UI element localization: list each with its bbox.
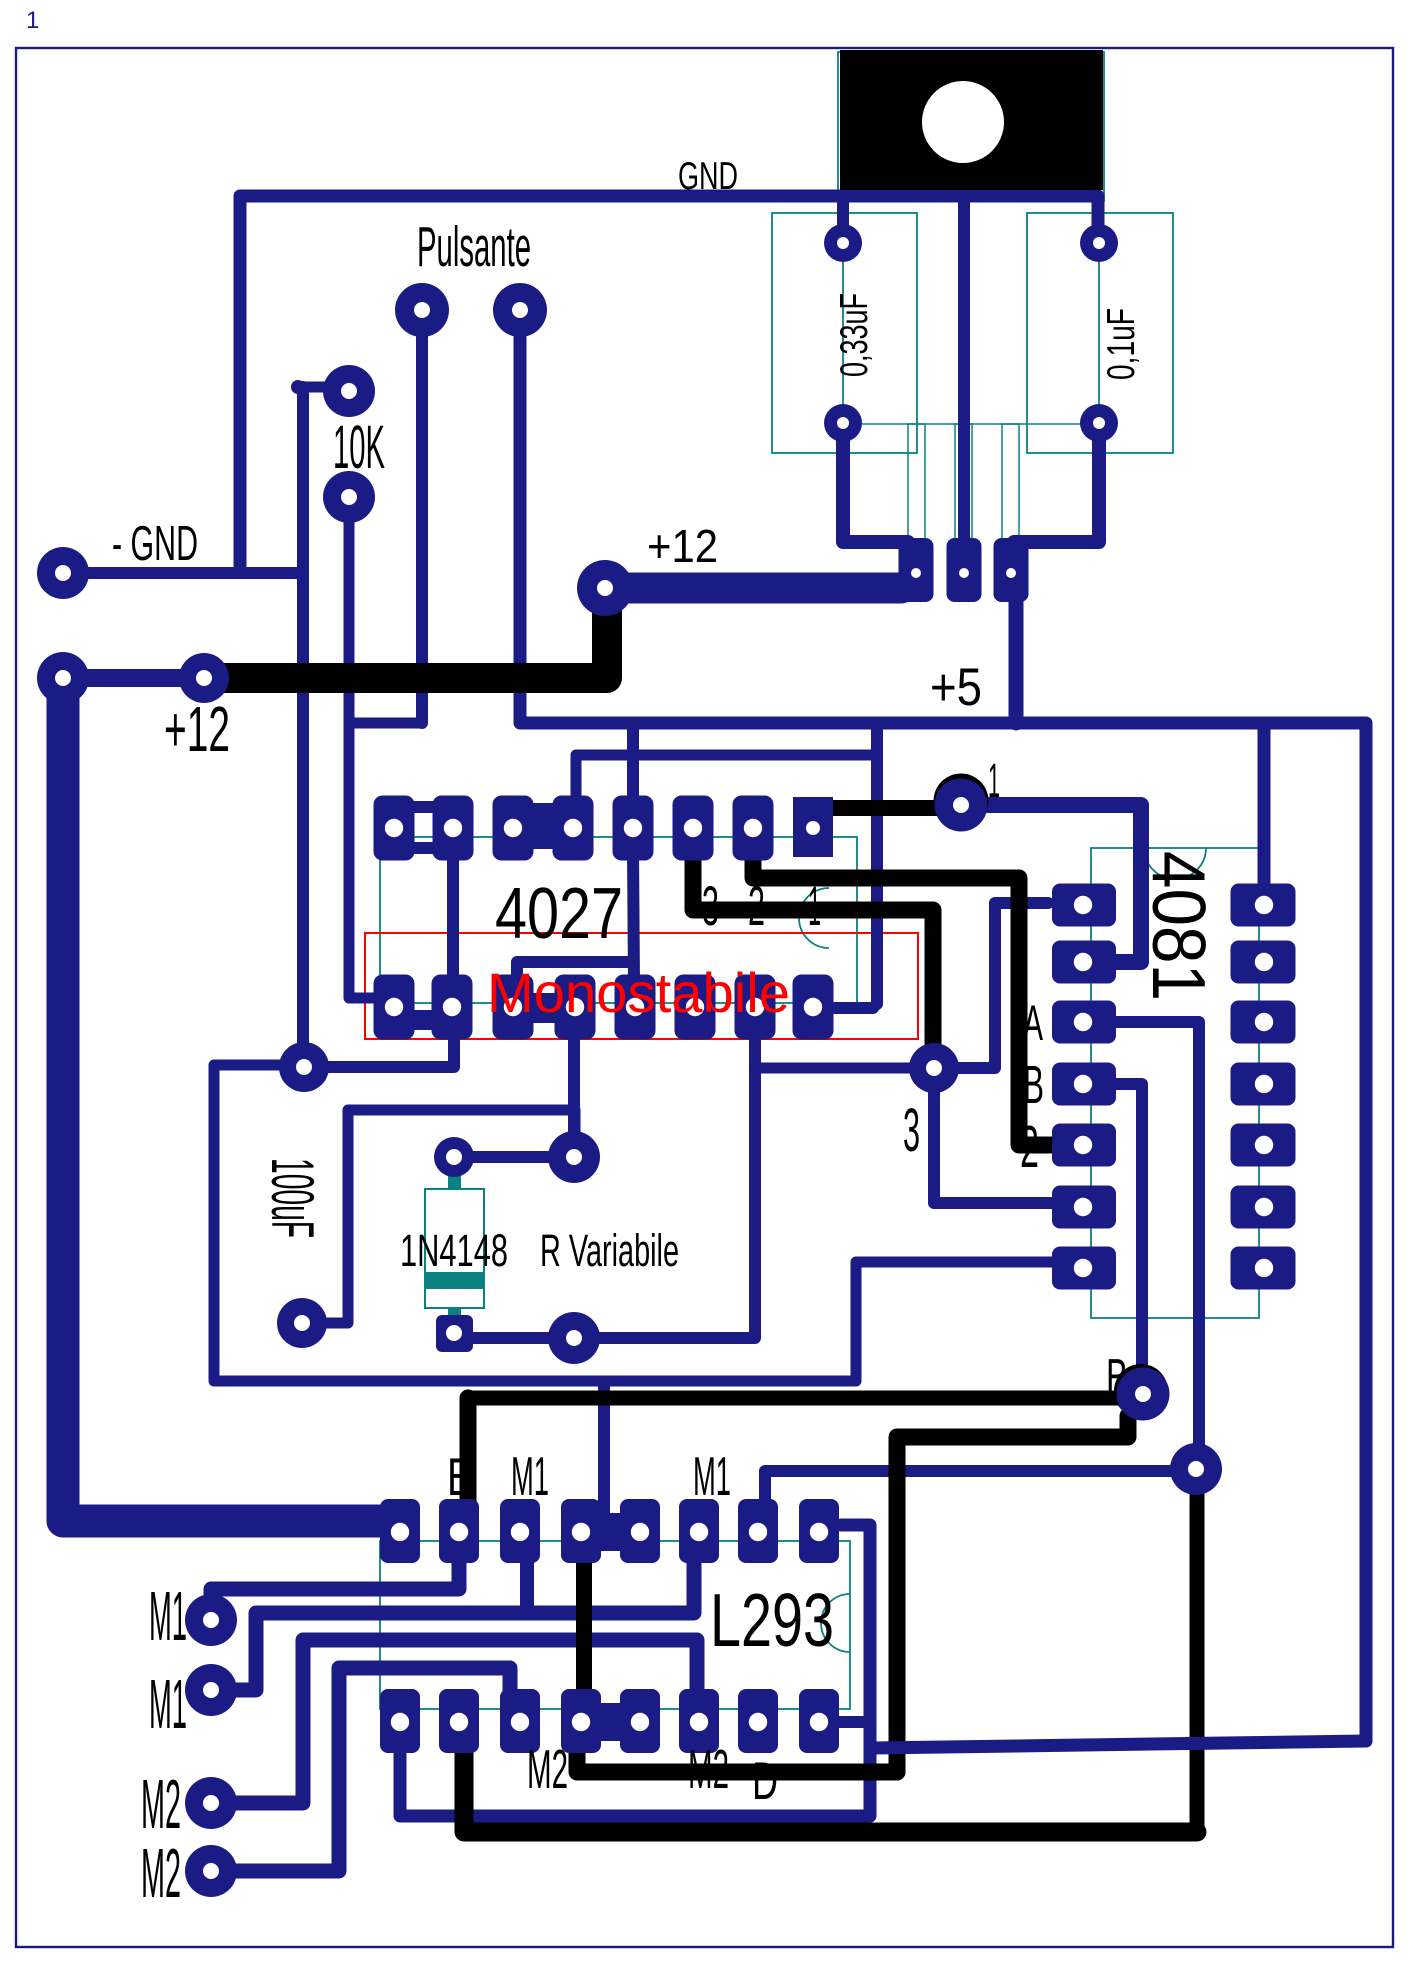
svg-text:M1: M1 <box>693 1445 731 1507</box>
10K stub end dot <box>291 380 305 394</box>
pad 4081 left pin 5 <box>1052 1124 1116 1167</box>
wire L293 pin9 to +5 bottom <box>400 1525 870 1816</box>
black wire L293 pin13 loop <box>577 1752 897 1772</box>
pad regulator pin1 <box>899 538 934 602</box>
wire 4081 B-pin to node B <box>1112 1084 1142 1385</box>
pad 4081 left pin 3 <box>1052 1001 1116 1044</box>
wire +12 left pads link <box>63 669 204 687</box>
wire 4027 pad8b stub <box>832 1002 873 1014</box>
pad 4081 right pin 10 <box>1231 1124 1296 1167</box>
wire node3 left link <box>755 1063 934 1074</box>
wire node1 to 4081 pin2 <box>961 805 1141 962</box>
wire loop drop to L293 pins4-5 <box>598 1383 610 1522</box>
wire 10K bottom to 4027 pin <box>349 497 390 998</box>
wire M1a to L293 pin2 <box>211 1560 459 1618</box>
wire +12 bar to regulator <box>605 573 901 604</box>
wire node3 to 4081 pin6 <box>934 1068 1056 1203</box>
pad 4027 top pin square <box>793 797 833 857</box>
pad M2 lower <box>185 1845 237 1897</box>
svg-text:M1: M1 <box>149 1665 187 1743</box>
wire 4027 pin4 to +5 <box>576 755 877 797</box>
svg-text:1N4148: 1N4148 <box>400 1225 508 1276</box>
wire reg pin2 to GND <box>958 200 970 548</box>
wire +5 drop to 4081 pin14 <box>1258 725 1271 900</box>
svg-text:M1: M1 <box>149 1577 187 1655</box>
pad L293 bottom pin 12 <box>620 1689 660 1753</box>
pad C1 top <box>824 224 862 262</box>
svg-text:M2: M2 <box>141 1834 181 1912</box>
pad L293 top pin 6 <box>679 1499 719 1563</box>
wire 100uF bottom link <box>302 1110 575 1323</box>
pad 4081 left pin 6 <box>1052 1186 1116 1229</box>
svg-text:A: A <box>1023 995 1043 1051</box>
black wire L293 pin4 column <box>576 1562 592 1692</box>
pad 4027 top pin 6 <box>733 796 774 861</box>
wire Pulsante left drop <box>416 310 428 723</box>
pad 4027 bottom pin 5 <box>675 975 716 1040</box>
pad Pulsante right <box>493 283 547 337</box>
svg-text:3: 3 <box>903 1096 920 1164</box>
svg-text:Pulsante: Pulsante <box>417 215 531 279</box>
regulator U4 body TO-220 <box>840 50 1103 190</box>
pad L293 bottom pin 15 <box>439 1689 479 1753</box>
node1 black ring <box>934 774 989 829</box>
pad 4027 top pin 1 <box>433 796 474 861</box>
svg-text:4081: 4081 <box>1137 851 1221 1001</box>
pad M2 upper <box>185 1777 237 1829</box>
wire Pulsante-10K link <box>349 718 422 729</box>
pad 100uF minus <box>277 1298 327 1348</box>
pad 4027 bottom pin 3 <box>555 975 596 1040</box>
L293 pad bridges <box>581 1513 640 1741</box>
pad 4081 right pin 8 <box>1231 1247 1296 1290</box>
wire diode bottom link <box>454 1332 574 1344</box>
svg-text:Monostabile: Monostabile <box>487 961 790 1024</box>
nodeB black ring <box>1114 1364 1168 1418</box>
wire node3 to 4081 pin1 <box>934 903 1048 1068</box>
pad +12 right <box>577 560 633 616</box>
pad M1 lower <box>185 1664 237 1716</box>
pad +12 mid <box>179 653 229 703</box>
pad 10K bottom <box>323 471 375 523</box>
wire Rvar top junction riser <box>568 1036 580 1157</box>
svg-text:100uF: 100uF <box>259 1158 326 1238</box>
pad C1 bottom <box>824 404 862 442</box>
wire -GND pad link <box>63 567 303 579</box>
svg-text:1: 1 <box>26 7 39 34</box>
junction node A-B <box>1170 1443 1222 1495</box>
pad 4027 bottom pin 4 <box>615 975 656 1040</box>
wire L293 pad8b stub <box>836 1716 869 1728</box>
diode D1 1N4148 body outline <box>425 1168 484 1324</box>
4027 pad bridges <box>394 801 562 1030</box>
wire +5 drop from regulator <box>1009 598 1024 723</box>
black wire inner loop <box>897 1416 1128 1772</box>
junction node B <box>1117 1368 1170 1421</box>
pad L293 top pin 1 <box>380 1499 420 1563</box>
pad L293 top pin 8 <box>799 1499 839 1563</box>
TO-220 pin outlines <box>843 424 1099 573</box>
black wire 4027 pin6 to node3 <box>693 852 933 1044</box>
pad 4081 right pin 13 <box>1231 941 1296 984</box>
pad C2 top <box>1080 224 1118 262</box>
pad 4081 left pin 2 <box>1052 941 1116 984</box>
pad 4081 right pin 9 <box>1231 1186 1296 1229</box>
pad 4081 right pin 11 <box>1231 1063 1296 1106</box>
wire 4027 pin7b riser <box>749 1034 761 1337</box>
wire L293 pin3 stub <box>520 1560 534 1610</box>
capacitor C1 0,33uF outline <box>772 213 917 453</box>
wire M1b to L293 pin6 <box>211 1558 694 1690</box>
pad 100uF plus <box>279 1042 329 1092</box>
svg-text:4027: 4027 <box>495 874 623 954</box>
pad L293 bottom pin 13 <box>561 1689 601 1753</box>
pad +12 left <box>37 652 89 704</box>
svg-text:0,1uF: 0,1uF <box>1100 308 1143 380</box>
wire +5 drop to 4027 pin8 bottom <box>871 725 883 1004</box>
pad diode top <box>434 1137 474 1177</box>
pad L293 bottom pin 14 <box>500 1689 540 1753</box>
pad L293 top pin 5 <box>620 1499 660 1563</box>
pad L293 top pin 3 <box>500 1499 540 1563</box>
black wire 4027 pin8 to node1 <box>830 800 955 816</box>
wire GND vertical to 100uF <box>297 387 309 1062</box>
pad L293 bottom pin 9 <box>799 1689 839 1753</box>
svg-text:D: D <box>752 1752 778 1811</box>
pad C2 bottom <box>1080 404 1118 442</box>
wire 4027 pad3b-pad5b bridge <box>517 962 633 1000</box>
wire 100uF top loop <box>214 1065 1056 1381</box>
pad regulator pin3 <box>994 538 1029 602</box>
wire C1 bottom to reg pin1 <box>843 438 908 556</box>
wire C2 bottom to reg pin3 <box>1014 438 1099 542</box>
svg-text:R Variabile: R Variabile <box>540 1225 679 1276</box>
IC U1 4027 courtyard outline <box>380 837 857 1003</box>
svg-text:GND: GND <box>678 155 738 198</box>
pad diode bottom square <box>436 1315 473 1352</box>
IC U3 L293 courtyard outline <box>380 1541 850 1709</box>
pad 4081 right pin 14 <box>1231 884 1296 927</box>
pad L293 top pin 4 <box>561 1499 601 1563</box>
junction node 3 <box>909 1043 959 1093</box>
junction node 1 <box>935 779 988 832</box>
pad 4027 bottom pin 2 <box>493 975 534 1040</box>
pad M1 upper <box>185 1594 237 1646</box>
black wire node B bus <box>468 1391 1122 1406</box>
wire 4027 pin5 to +5 <box>627 725 639 797</box>
pad 4027 top pin 2 <box>493 796 534 861</box>
pad 4027 top pin 4 <box>613 796 654 861</box>
pad regulator pin2 <box>947 538 982 602</box>
pad L293 top pin 2 <box>439 1499 479 1563</box>
black wire bottom bus <box>464 1716 1197 1832</box>
wire L293 pin7 to junction <box>765 1471 1190 1499</box>
svg-text:M2: M2 <box>688 1738 729 1800</box>
pad 4027 bottom pin 7 <box>793 975 834 1040</box>
pad 4081 left pin 4 <box>1052 1063 1116 1106</box>
svg-text:+12: +12 <box>164 693 230 765</box>
pad 4027 top pin 3 <box>553 796 594 861</box>
pad L293 bottom pin 11 <box>679 1689 719 1753</box>
pad L293 top pin 7 <box>738 1499 778 1563</box>
wire diode top link <box>454 1151 574 1163</box>
black wire bottom bus riser <box>1190 1478 1205 1832</box>
pad -GND <box>37 547 89 599</box>
svg-text:- GND: - GND <box>112 517 198 571</box>
pad 4027 bottom pin 6 <box>735 975 776 1040</box>
wire M2a to L293 pin11 <box>211 1640 697 1803</box>
pad 4027 bottom pin 1 <box>432 975 473 1040</box>
junction Rvar top <box>548 1131 600 1183</box>
wire +5 bottom return <box>873 1741 1366 1748</box>
wire Rvar bottom junction link <box>574 1332 755 1344</box>
pad 10K top <box>323 365 375 417</box>
pad 4081 right pin 12 <box>1231 1001 1296 1044</box>
monostable red group box <box>365 933 918 1039</box>
svg-text:M1: M1 <box>511 1445 549 1507</box>
black wire node B drop to L293 pin2t <box>460 1398 477 1502</box>
wire +12 thick rail <box>63 678 398 1521</box>
black wire +12 link bar <box>214 592 607 678</box>
IC U2 4081 courtyard outline <box>1091 848 1259 1318</box>
svg-text:L293: L293 <box>710 1578 834 1662</box>
wire GND top rail <box>240 196 1098 573</box>
regulator U4 7805 TO-220 outline <box>838 52 1104 201</box>
pad L293 bottom pin 10 <box>738 1689 778 1753</box>
wire C1 top to GND <box>837 200 849 228</box>
capacitor C2 0,1uF outline <box>1027 213 1173 453</box>
svg-text:+12: +12 <box>647 520 718 572</box>
wire 10K stub <box>298 382 330 393</box>
svg-text:10K: 10K <box>333 413 385 481</box>
pad 4027 top pin 0 <box>374 796 415 861</box>
wire 100uF to 4027 pin2b <box>308 1030 454 1067</box>
junction Rvar bottom <box>548 1312 600 1364</box>
wire 4081 A-pin riser <box>1112 1022 1199 1452</box>
wire +5 bus horizontal <box>520 310 1366 1741</box>
svg-text:B: B <box>1023 1055 1044 1115</box>
svg-text:0,33uF: 0,33uF <box>833 293 876 377</box>
wire 4027 col2 vertical <box>447 850 459 985</box>
pad Pulsante left <box>395 283 449 337</box>
pad L293 bottom pin 16 <box>380 1689 420 1753</box>
svg-text:M2: M2 <box>141 1765 181 1843</box>
pad 4081 left pin 7 <box>1052 1247 1116 1290</box>
svg-text:+5: +5 <box>930 658 982 717</box>
wire M2b to L293 pin12 <box>211 1668 510 1871</box>
pad 4081 left pin 1 <box>1052 884 1116 927</box>
pad 4027 bottom pin 0 <box>374 975 415 1040</box>
wire 4027 col5 vertical <box>633 850 634 985</box>
black wire 4027 pin7 to 4081 pin5 <box>753 852 1052 1145</box>
svg-text:M2: M2 <box>527 1738 568 1800</box>
pad 4027 top pin 5 <box>673 796 714 861</box>
